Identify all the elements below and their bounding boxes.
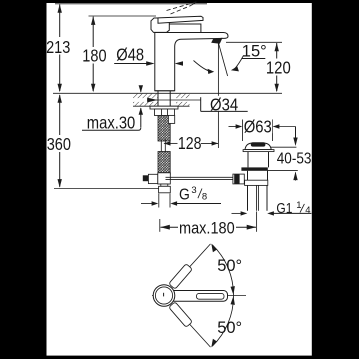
svg-text:120: 120 xyxy=(266,59,291,78)
15deg arc right segment with arrow xyxy=(231,56,244,72)
label G1 1/4 with underline xyxy=(274,200,312,217)
threaded shank braid lower xyxy=(158,152,170,175)
dimension 360 line xyxy=(58,94,62,187)
vertical stream line xyxy=(217,44,219,149)
faucet lever handle xyxy=(158,16,203,23)
spout top line xyxy=(155,32,201,34)
max180 extension lines xyxy=(160,212,257,232)
lower hose nut G3/8 xyxy=(159,186,171,193)
svg-text:Ø63: Ø63 xyxy=(244,117,272,136)
extension line 180 top xyxy=(89,15,157,17)
svg-text:Ø48: Ø48 xyxy=(116,45,144,64)
label Ø63 xyxy=(243,117,272,136)
body bottom line xyxy=(155,90,175,92)
top view swing arc xyxy=(212,245,233,347)
dimension 40-53 verticals and arrows xyxy=(293,127,297,181)
washer under deck xyxy=(150,106,178,109)
aerator outlet xyxy=(211,38,222,44)
svg-text:40-53: 40-53 xyxy=(277,151,312,168)
top view ghost handle upper xyxy=(169,264,193,290)
drain extension lines xyxy=(243,120,273,142)
svg-text:3: 3 xyxy=(191,185,196,196)
drain tailpipe xyxy=(248,185,268,210)
top view handle bar xyxy=(170,291,228,302)
svg-text:8: 8 xyxy=(202,192,207,203)
tilted stream line 15deg xyxy=(219,44,228,77)
arc arrowhead lower xyxy=(211,339,217,348)
hose tubes in gap xyxy=(161,140,165,152)
arc centerline arrow lower xyxy=(231,296,235,305)
drain second ring xyxy=(245,180,268,185)
arc arrowhead upper xyxy=(211,244,217,253)
40-53 bottom reference line xyxy=(267,169,298,171)
svg-text:1: 1 xyxy=(296,200,301,211)
hose end fitting cluster xyxy=(143,173,171,184)
faucet ghost lever dashed (open position) xyxy=(167,2,197,14)
label G3/8 with underline xyxy=(177,185,221,204)
drain mid section xyxy=(248,171,268,180)
label Ø48 with underline and leader xyxy=(114,45,183,65)
faucet body and spout outline xyxy=(155,24,228,91)
G3/8 extension lines xyxy=(159,194,170,208)
label max.30 with underline leader xyxy=(82,113,141,132)
top view inner circle xyxy=(155,287,172,304)
neck between fittings xyxy=(161,184,168,186)
15deg arc left segment with arrow xyxy=(194,61,215,75)
drain side knob xyxy=(233,174,244,184)
svg-text:G: G xyxy=(179,186,190,204)
dimension max180 line xyxy=(160,225,256,230)
svg-text:213: 213 xyxy=(46,38,70,58)
pop-up horizontal rod xyxy=(166,177,233,179)
40-53 top reference line xyxy=(269,146,296,148)
label Ø34 with open box xyxy=(201,95,248,114)
shank in deck hole xyxy=(158,91,170,106)
svg-text:50°: 50° xyxy=(217,256,242,275)
white drawing panel xyxy=(47,3,312,356)
hose bottom reference line xyxy=(54,188,159,190)
G3/8 dimension arrows xyxy=(141,201,177,205)
dimension Ø63 arrows xyxy=(229,124,296,128)
svg-text:G1: G1 xyxy=(276,200,292,217)
top view centerline xyxy=(152,295,246,297)
dimension 128 line xyxy=(164,141,219,145)
mounting nut xyxy=(155,109,175,116)
Ø34 leader line and arrow xyxy=(147,98,201,103)
svg-text:50°: 50° xyxy=(217,318,242,337)
dimension 120 line xyxy=(275,43,279,92)
extension line outlet level xyxy=(226,41,282,43)
G1 1/4 leader arrows xyxy=(232,211,274,215)
top view ghost handle lower xyxy=(169,302,193,328)
arc centerline arrow upper xyxy=(231,286,235,295)
svg-text:15°: 15° xyxy=(242,41,267,60)
top view center dash xyxy=(163,293,165,297)
threaded shank braid upper xyxy=(158,116,170,142)
drain flange base ring xyxy=(243,150,274,152)
top view swing ray upper xyxy=(172,244,211,287)
countertop slab hatched xyxy=(133,94,190,107)
svg-text:4: 4 xyxy=(305,205,310,216)
top view swing ray lower xyxy=(172,305,211,348)
extension line top xyxy=(55,3,207,5)
drain body xyxy=(248,152,269,168)
deck reference line xyxy=(53,92,282,94)
max.30 dimension arrows xyxy=(139,85,143,127)
faucet lever pivot block xyxy=(151,18,169,32)
drain plug dark band xyxy=(251,142,266,146)
svg-text:360: 360 xyxy=(47,135,71,155)
top view handle inner detail xyxy=(197,293,225,299)
top view body circle xyxy=(153,285,175,307)
svg-text:max.180: max.180 xyxy=(179,220,235,238)
dimension 213 line xyxy=(58,4,62,92)
svg-text:128: 128 xyxy=(178,135,202,154)
drain flange dome xyxy=(245,143,271,150)
15deg underline xyxy=(242,58,266,60)
dimension 180 line xyxy=(91,16,95,92)
pop-up rod clamp xyxy=(168,115,174,123)
svg-text:180: 180 xyxy=(82,46,106,66)
drain collar dark band xyxy=(241,167,267,170)
